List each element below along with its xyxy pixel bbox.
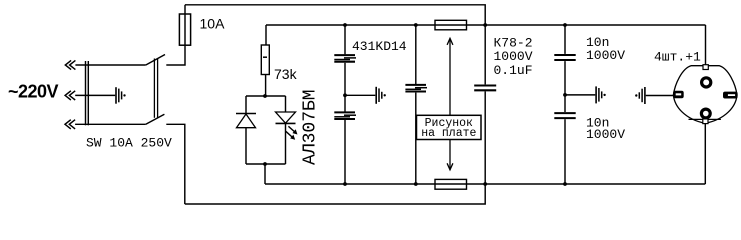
svg-text:0.1uF: 0.1uF	[494, 63, 533, 78]
wire C4 to inner bottom rail	[484, 91, 486, 184]
switch SW mechanical link (double lines)	[154, 59, 157, 118]
wire top rail to resistor R1	[265, 25, 267, 45]
wire between C1 and C2	[344, 63, 346, 113]
ground G4 (socket earth, mirrored)	[635, 87, 645, 104]
wire ground G4 to socket left pin	[646, 95, 674, 97]
wire PE from connector to ground	[75, 94, 115, 96]
wire C2 to inner bottom rail	[344, 119, 346, 184]
capacitor C3 (hatched)	[405, 85, 427, 92]
wire C1/C2 midpoint to ground G2	[345, 94, 375, 96]
wire diode VD1 anode	[245, 128, 247, 164]
LED VD2 emission arrow 1	[288, 126, 297, 134]
switch SW pole 1 blade	[146, 55, 165, 66]
capacitor C2 431KD14 (hatched)	[334, 112, 356, 119]
diode VD1 cathode bar	[236, 113, 256, 115]
PCB trace inductor L1 body (in top rail)	[435, 20, 467, 30]
resistor R1 power-rating dash	[263, 56, 267, 58]
svg-text:1000V: 1000V	[586, 127, 625, 142]
svg-text:4шт.+1: 4шт.+1	[654, 50, 701, 65]
wire C5/C6 midpoint to ground G3	[565, 94, 595, 96]
capacitor C1 431KD14 (hatched)	[334, 55, 356, 62]
wire socket bottom to inner bottom rail	[704, 119, 706, 184]
wire LED VD2 cathode down	[285, 123, 287, 164]
capacitor C5 10n 1000V plates	[554, 55, 575, 60]
socket XS1 top terminal tab	[703, 65, 708, 70]
branch C1/C2 (431KD14) wire top	[344, 25, 346, 54]
capacitor C4 K78-2 0.1uF plates	[474, 86, 496, 91]
svg-text:на плате: на плате	[421, 127, 476, 140]
inner top rail	[266, 24, 706, 26]
socket XS1 bottom terminal tab	[703, 119, 708, 124]
inner bottom rail	[265, 183, 705, 185]
svg-text:10A: 10A	[200, 16, 226, 32]
ground G3	[596, 86, 606, 103]
branch C4 K78-2 wire top	[484, 25, 486, 84]
wire fuse top to outer top rail	[184, 5, 186, 14]
LED VD2 triangle	[276, 112, 296, 123]
wire to diode VD1 cathode	[245, 96, 247, 114]
capacitor C6 10n 1000V plates	[554, 113, 575, 118]
svg-text:1000V: 1000V	[586, 48, 625, 63]
resistor R1 73k body	[261, 45, 269, 75]
wire through fuse F1	[184, 14, 186, 45]
ground G2	[376, 87, 386, 104]
PCB trace inductor L2 body (in bottom rail)	[435, 179, 467, 189]
LED VD2 cathode bar	[276, 122, 296, 124]
wire C3 to inner bottom rail	[415, 93, 417, 184]
wire LED loop bottom to inner bottom rail	[264, 164, 266, 184]
svg-text:~220V: ~220V	[8, 82, 59, 102]
wire between C5 and C6	[564, 61, 566, 112]
wire to LED VD2 anode	[285, 96, 287, 112]
wire L from connector to switch pole 1	[75, 64, 145, 66]
wire C6 to inner bottom rail	[564, 119, 566, 184]
wire switch pole2 throw down to outer bottom rail	[166, 124, 185, 204]
wire switch pole1 throw to fuse	[166, 45, 185, 65]
switch SW pole 2 blade	[146, 114, 165, 124]
LED VD2 emission arrow 2	[286, 131, 295, 139]
svg-text:АЛ307БМ: АЛ307БМ	[300, 89, 320, 165]
LED loop top wire	[246, 95, 286, 97]
wire resistor R1 to LED loop	[265, 75, 267, 97]
ground G1 (input PE)	[116, 87, 126, 104]
socket XS1 outline (flat top)	[673, 66, 737, 124]
svg-text:73k: 73k	[274, 66, 298, 82]
socket XS1 top hole	[702, 78, 711, 87]
fuse F1 10A body	[179, 14, 190, 45]
branch C5/C6 (10n) wire top	[564, 25, 566, 54]
socket XS1 bottom hole	[701, 109, 710, 118]
diode VD1 triangle	[237, 114, 256, 128]
label box "Рисунок на плате"	[417, 115, 482, 139]
wire N from connector to switch pole 2	[75, 123, 146, 125]
double arrow between L1 and L2	[447, 38, 453, 169]
outer top rail (live)	[185, 5, 485, 25]
socket XS1 left earth pin	[673, 91, 684, 98]
socket XS1 bottom chord	[689, 118, 721, 120]
branch C3 wire top	[415, 25, 417, 84]
wire inner top rail to socket	[705, 25, 707, 66]
socket XS1 right earth pin	[723, 92, 738, 99]
connector X1 pin arrows (~220V input)	[65, 60, 75, 128]
svg-text:SW 10A 250V: SW 10A 250V	[86, 135, 172, 150]
svg-text:431KD14: 431KD14	[352, 39, 407, 54]
outer bottom rail (neutral)	[185, 184, 485, 204]
LED loop bottom wire	[246, 163, 286, 165]
connector X1 mating interface (double lines)	[86, 61, 89, 125]
